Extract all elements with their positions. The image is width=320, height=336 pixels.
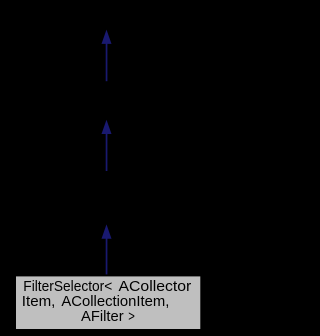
node label line 1: [23, 279, 191, 295]
inheritance arrow 1 (topmost, to hidden base class): [102, 30, 112, 82]
svg-text:>: >: [128, 309, 135, 325]
inheritance arrow 3 (from FilterSelector node to hidden base class): [102, 224, 112, 276]
inheritance arrow 2 (middle, to hidden base class): [102, 120, 112, 171]
svg-text:FilterSelector<: FilterSelector<: [23, 279, 112, 295]
svg-text:ACollectionItem,: ACollectionItem,: [61, 294, 169, 310]
svg-text:ACollector: ACollector: [119, 279, 192, 295]
class node FilterSelector box: [15, 275, 201, 330]
node label line 3: [81, 309, 135, 325]
svg-text:Item,: Item,: [22, 294, 56, 310]
node label line 2: [22, 294, 170, 310]
svg-text:AFilter: AFilter: [81, 309, 124, 325]
